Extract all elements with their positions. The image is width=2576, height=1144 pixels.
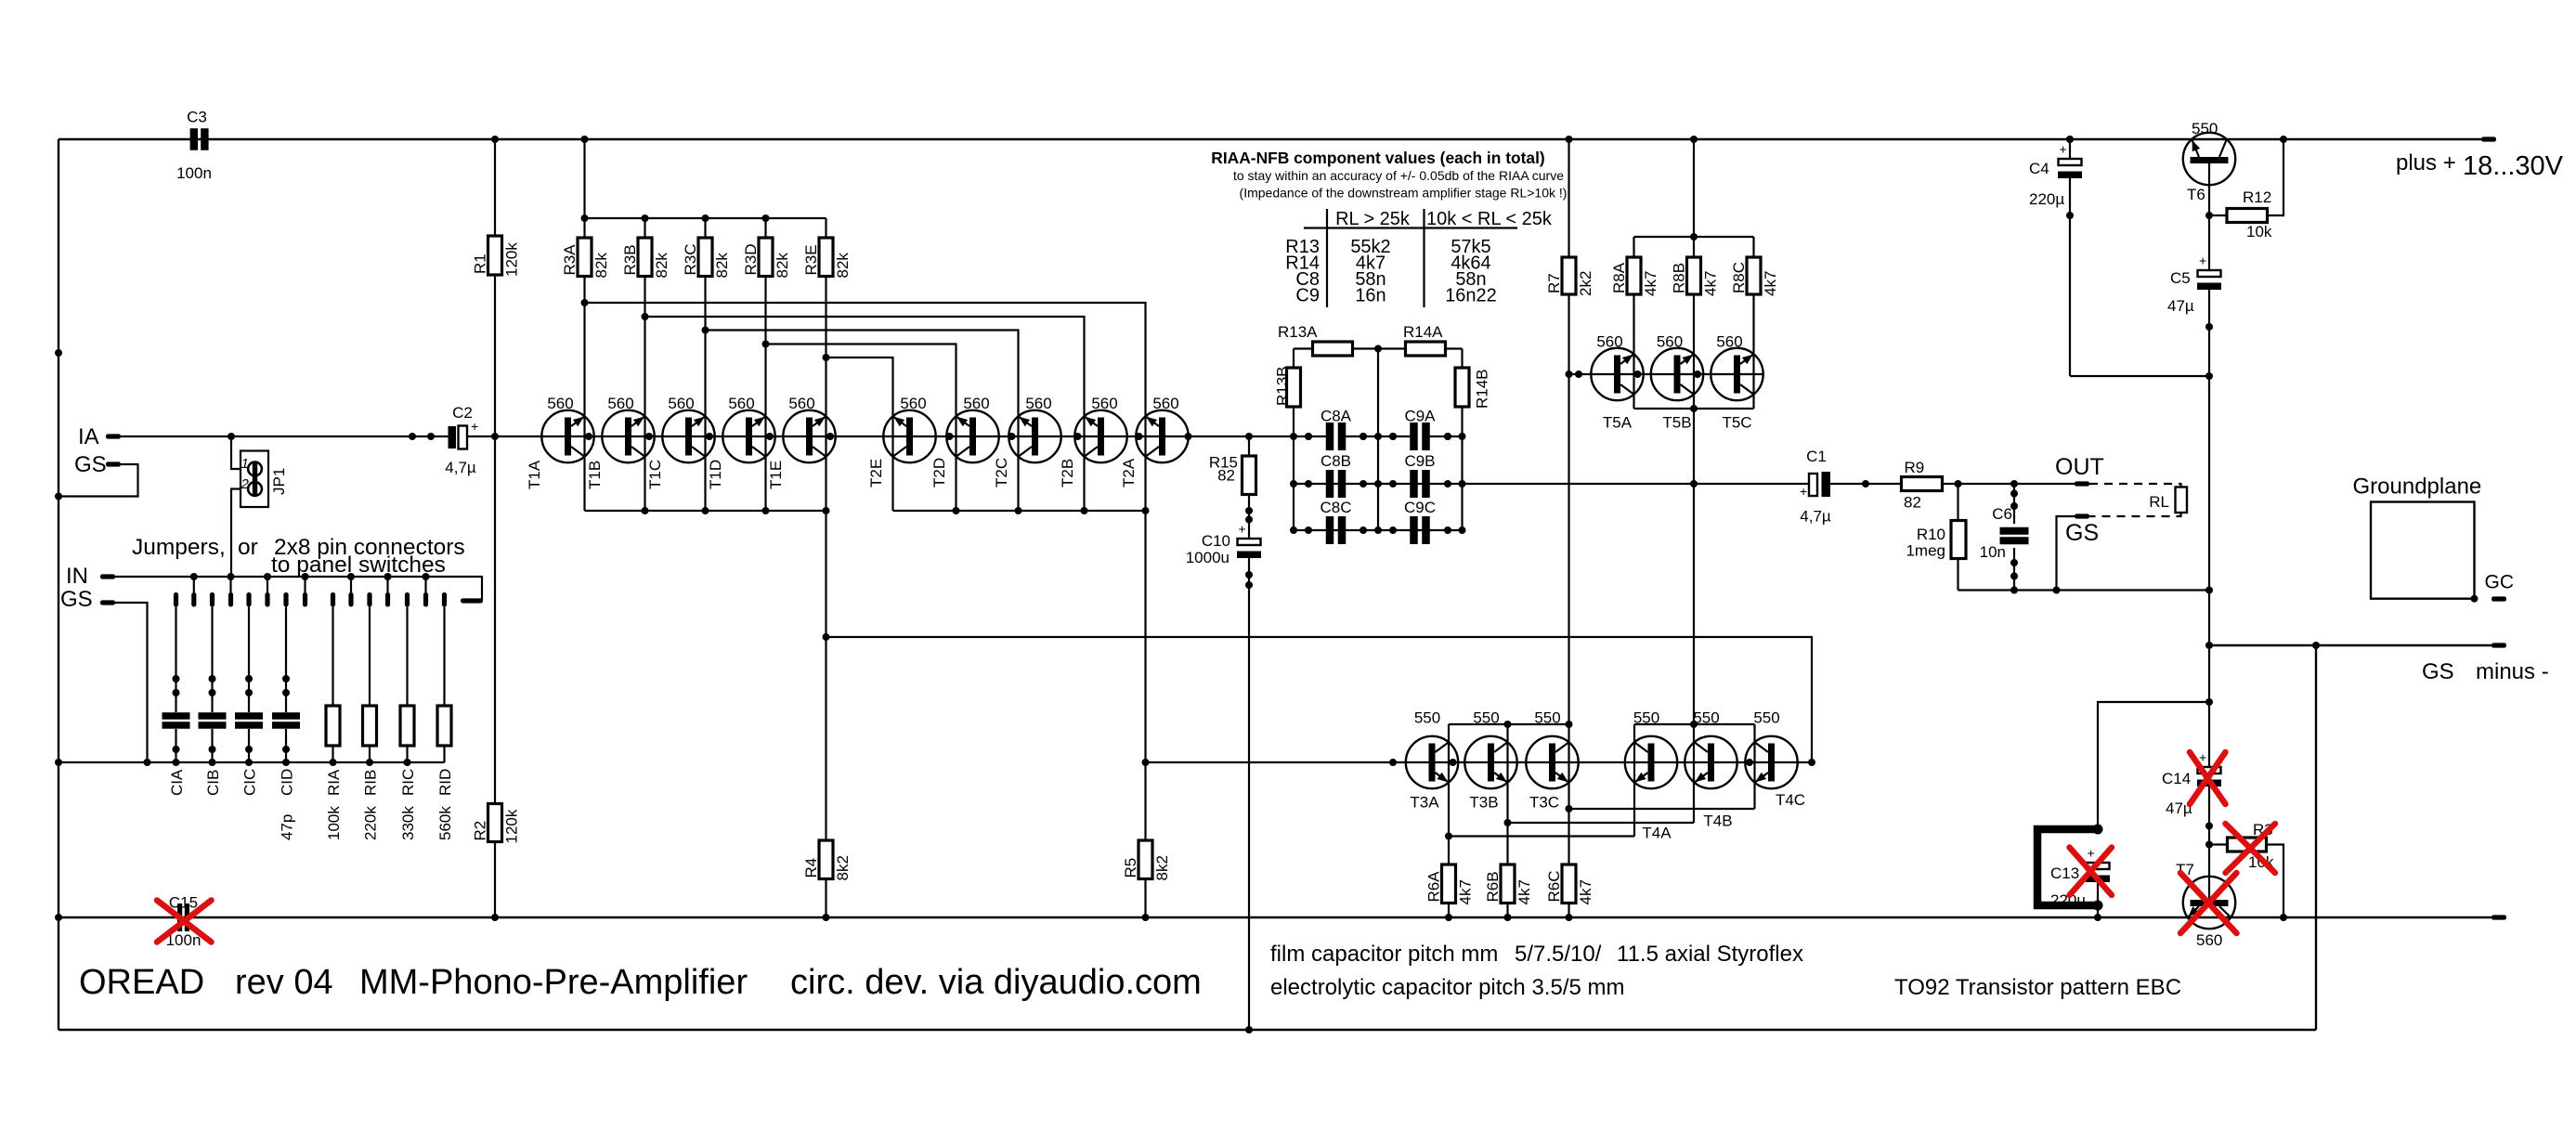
wire crossover R3B to T2 xyxy=(645,317,1085,511)
svg-text:T2C: T2C xyxy=(993,458,1010,487)
wire R4 net to T3 base riser xyxy=(826,637,1813,762)
wire R12 to plus rail xyxy=(2268,139,2284,215)
wire left border xyxy=(58,139,59,1030)
wire C2 to T1A xyxy=(467,435,541,437)
svg-text:220µ: 220µ xyxy=(2029,190,2064,208)
wire T3A collector xyxy=(1448,724,1450,837)
svg-text:T5A: T5A xyxy=(1603,414,1633,432)
transistor T5B xyxy=(1651,348,1703,400)
svg-text:4k7: 4k7 xyxy=(1516,879,1533,904)
svg-text:C13: C13 xyxy=(2050,864,2079,882)
svg-text:2: 2 xyxy=(241,476,250,492)
wire RIAA row B xyxy=(1294,483,1463,485)
transistor T5A xyxy=(1591,348,1643,400)
wire R3 to minus bus xyxy=(2267,845,2284,918)
svg-text:T4C: T4C xyxy=(1776,791,1805,809)
svg-text:R3C: R3C xyxy=(682,243,699,275)
resistor R12 xyxy=(2209,214,2227,216)
wire C5 down xyxy=(2208,290,2210,645)
capacitor C9B xyxy=(1410,470,1418,498)
svg-text:+: + xyxy=(2088,846,2095,861)
svg-text:220k: 220k xyxy=(362,806,380,840)
wire OUT row xyxy=(1463,483,1810,485)
svg-text:560: 560 xyxy=(1657,333,1683,351)
svg-text:RL > 25k: RL > 25k xyxy=(1335,209,1411,229)
node dot R7 T5 base xyxy=(1566,370,1573,378)
svg-text:R9: R9 xyxy=(1905,459,1925,476)
resistor R15 xyxy=(1245,433,1253,440)
pins 2x8 connector xyxy=(174,592,178,607)
svg-text:C3: C3 xyxy=(187,109,207,126)
svg-text:GC: GC xyxy=(2485,572,2515,593)
svg-text:82k: 82k xyxy=(653,253,670,279)
wire T4A column xyxy=(1633,724,1635,837)
svg-text:8k2: 8k2 xyxy=(1153,855,1171,880)
wire GS output drop xyxy=(2057,516,2075,591)
wire crossover R3D to T2 xyxy=(766,344,956,512)
transistor T3C xyxy=(1526,736,1578,788)
svg-text:4k7: 4k7 xyxy=(1702,271,1720,296)
svg-text:RIC: RIC xyxy=(399,769,417,796)
svg-text:electrolytic capacitor pitch 3: electrolytic capacitor pitch 3.5/5 mm xyxy=(1270,975,1624,1000)
svg-text:T4B: T4B xyxy=(1703,812,1732,830)
svg-text:T3C: T3C xyxy=(1529,794,1559,812)
svg-text:CIC: CIC xyxy=(241,769,259,796)
wire R3C to T1/T2 column xyxy=(704,277,706,512)
capacitor C15 (deleted) xyxy=(177,903,182,931)
svg-text:R13B: R13B xyxy=(1274,366,1292,406)
svg-text:550: 550 xyxy=(1753,709,1779,727)
red cross over R3 xyxy=(2226,824,2276,873)
svg-text:C8A: C8A xyxy=(1321,408,1352,425)
node dot C13 branch xyxy=(2205,698,2213,706)
svg-text:560: 560 xyxy=(607,395,633,412)
capacitor C13 (bridged, deleted) xyxy=(2037,829,2098,905)
svg-text:T1C: T1C xyxy=(646,460,664,489)
svg-text:circ. dev. via diyaudio.com: circ. dev. via diyaudio.com xyxy=(790,963,1202,1002)
node dot R13A R14A xyxy=(1374,345,1382,353)
transistor T6 xyxy=(2183,133,2235,185)
wire R3D to T1/T2 column xyxy=(764,277,766,512)
svg-text:MM-Phono-Pre-Amplifier: MM-Phono-Pre-Amplifier xyxy=(359,963,748,1002)
terminal GC xyxy=(2491,596,2506,601)
wire C10 to bottom border xyxy=(1248,558,1250,1030)
transistor T2D xyxy=(946,410,998,462)
svg-text:Jumpers,: Jumpers, xyxy=(132,535,226,560)
wire RIAA left rail R13B xyxy=(1293,349,1295,369)
svg-text:R6A: R6A xyxy=(1425,871,1443,903)
transistor T2B xyxy=(1074,410,1126,462)
svg-text:82: 82 xyxy=(1217,467,1235,485)
svg-text:C1: C1 xyxy=(1806,448,1827,465)
table RIAA values xyxy=(1326,209,1328,307)
wire minus rail xyxy=(2208,644,2491,646)
svg-text:560: 560 xyxy=(1152,395,1178,412)
svg-text:OREAD: OREAD xyxy=(79,963,204,1002)
wire RIAA row A segments xyxy=(1249,435,1327,437)
node dots IN wire xyxy=(190,573,198,580)
svg-text:+: + xyxy=(2199,253,2206,268)
node dot T4 collector riser on OUT row xyxy=(1690,480,1698,487)
terminal plus xyxy=(2481,136,2496,141)
svg-text:GS: GS xyxy=(2422,659,2454,684)
resistor R13B xyxy=(1287,368,1301,407)
resistor RIC xyxy=(406,607,408,707)
svg-text:TO92 Transistor pattern EBC: TO92 Transistor pattern EBC xyxy=(1894,975,2181,1000)
wire R3A to T1/T2 column xyxy=(583,277,585,512)
svg-text:T5C: T5C xyxy=(1722,414,1751,432)
resistor R6B xyxy=(1506,823,1508,864)
wire JP1 pin2 to IN xyxy=(231,489,241,578)
wire T6 base down xyxy=(2208,162,2210,270)
svg-text:RID: RID xyxy=(436,769,454,796)
wire T3A-T4A emitters xyxy=(1449,835,1634,837)
jumper JP1 xyxy=(241,451,268,508)
svg-text:rev 04: rev 04 xyxy=(235,963,333,1002)
svg-text:100k: 100k xyxy=(325,806,343,840)
svg-text:4,7µ: 4,7µ xyxy=(445,459,476,476)
svg-text:10n: 10n xyxy=(1980,543,2006,561)
wire minus bus xyxy=(59,916,2491,918)
wire T2 emitter bus xyxy=(893,510,1146,512)
wire T3C-T4C emitters xyxy=(1569,808,1755,810)
node dots on minus bus xyxy=(55,914,62,921)
wire R3 top bus xyxy=(585,217,826,219)
svg-text:T3A: T3A xyxy=(1410,794,1439,812)
svg-text:16n: 16n xyxy=(1355,286,1386,306)
node dot T3A base xyxy=(1450,759,1457,766)
wire C4 down to C5 node xyxy=(2069,178,2071,376)
svg-text:560k: 560k xyxy=(436,806,454,840)
wire R3 bus riser xyxy=(583,139,585,218)
wire T2 bus to R5 xyxy=(1144,511,1146,840)
svg-text:RIB: RIB xyxy=(362,770,380,796)
resistor R8A xyxy=(1633,237,1634,257)
resistor RIA xyxy=(332,607,333,707)
node dot R4 tap xyxy=(823,633,830,641)
svg-text:T1B: T1B xyxy=(586,461,604,489)
svg-text:120k: 120k xyxy=(503,242,521,277)
svg-text:R8C: R8C xyxy=(1730,262,1748,293)
svg-text:R6B: R6B xyxy=(1484,871,1502,902)
svg-text:or: or xyxy=(238,535,258,560)
node dot GS lower bus xyxy=(144,759,151,766)
wire R3B to T1/T2 column xyxy=(644,277,645,512)
svg-text:18...30V: 18...30V xyxy=(2463,151,2564,181)
resistor R6A xyxy=(1448,837,1450,865)
transistor T2C xyxy=(1008,410,1060,462)
resistor R3E xyxy=(825,218,826,238)
wire IA input xyxy=(121,435,449,437)
wire right border xyxy=(2315,645,2317,1030)
svg-text:R5: R5 xyxy=(1122,858,1139,878)
svg-text:550: 550 xyxy=(1414,709,1440,727)
wire T1 bus to R4 xyxy=(825,511,826,840)
wire R7 column down xyxy=(1568,294,1569,724)
transistor T1A xyxy=(541,410,593,462)
svg-text:C2: C2 xyxy=(452,404,473,422)
svg-text:R14B: R14B xyxy=(1474,369,1491,409)
svg-text:560: 560 xyxy=(1025,395,1051,412)
svg-text:4,7µ: 4,7µ xyxy=(1800,508,1831,526)
svg-text:T2D: T2D xyxy=(930,458,948,487)
resistor R13A xyxy=(1294,347,1313,349)
svg-text:120k: 120k xyxy=(503,809,521,843)
svg-text:10k < RL < 25k: 10k < RL < 25k xyxy=(1426,209,1553,229)
svg-text:R6C: R6C xyxy=(1545,870,1563,902)
svg-text:GS: GS xyxy=(74,452,107,477)
resistor R2 xyxy=(494,436,496,917)
svg-text:R8A: R8A xyxy=(1610,262,1628,293)
svg-text:C5: C5 xyxy=(2170,269,2191,287)
capacitor CIC xyxy=(248,607,250,713)
svg-text:(Impedance of the downstream a: (Impedance of the downstream amplifier s… xyxy=(1240,186,1568,201)
resistor R14A xyxy=(1406,342,1446,356)
capacitor C14 (deleted) xyxy=(2198,767,2221,773)
wire T4C column xyxy=(1753,724,1755,809)
wire T1 emitter bus xyxy=(585,510,826,512)
svg-text:560: 560 xyxy=(1716,333,1742,351)
svg-text:560: 560 xyxy=(2196,931,2222,949)
svg-text:T2A: T2A xyxy=(1120,458,1138,487)
resistor R3 (deleted) xyxy=(2209,843,2228,845)
svg-text:560: 560 xyxy=(668,395,694,412)
wire T3 T4 base chain xyxy=(1146,761,1813,763)
load RL dashed return xyxy=(2089,513,2181,516)
svg-text:4k7: 4k7 xyxy=(1577,879,1594,904)
svg-text:330k: 330k xyxy=(399,806,417,840)
wire output ground return xyxy=(1958,589,2210,591)
wire GS upper to border xyxy=(59,464,138,497)
svg-text:R7: R7 xyxy=(1545,273,1563,293)
svg-text:R13A: R13A xyxy=(1278,323,1318,341)
wire RIAA center rail xyxy=(1377,349,1379,531)
wire bottom border xyxy=(59,1029,2316,1031)
wire R3E to T1/T2 column xyxy=(825,277,826,512)
wire crossover R3A to T2 xyxy=(585,303,1146,511)
svg-text:16n22: 16n22 xyxy=(1445,286,1497,306)
wire C13 branch xyxy=(2098,702,2209,829)
transistor T3A xyxy=(1406,736,1458,788)
svg-text:4k7: 4k7 xyxy=(1642,271,1659,296)
capacitor CID xyxy=(285,607,287,713)
capacitor CIA xyxy=(175,607,176,713)
resistor R3A xyxy=(581,214,589,222)
svg-text:to panel switches: to panel switches xyxy=(271,552,446,578)
transistor T7 (deleted) xyxy=(2183,877,2235,929)
resistor R3C xyxy=(702,214,709,222)
capacitor C8B xyxy=(1326,470,1334,498)
svg-text:82k: 82k xyxy=(592,253,610,279)
wire T3B collector xyxy=(1506,724,1508,823)
terminal GS upper xyxy=(106,461,121,466)
svg-text:film capacitor pitch mm: film capacitor pitch mm xyxy=(1270,942,1498,967)
wire T5 emitters to T4 collectors riser xyxy=(1693,409,1695,724)
red cross over C15 xyxy=(157,901,212,942)
svg-text:47p: 47p xyxy=(279,814,296,840)
wire JP1 pin1 xyxy=(231,436,241,469)
wire R8C to T5 xyxy=(1752,294,1754,409)
node dot left border CI bus xyxy=(55,759,62,766)
wire R8 top bus riser xyxy=(1693,139,1695,237)
svg-text:to stay within an accuracy of: to stay within an accuracy of +/- 0.05db… xyxy=(1233,168,1564,183)
svg-text:560: 560 xyxy=(1091,395,1117,412)
svg-text:82k: 82k xyxy=(713,253,731,279)
wire CI bus xyxy=(59,761,445,763)
wire GS lower to bus xyxy=(115,603,148,762)
svg-text:82k: 82k xyxy=(774,253,791,279)
svg-text:C9A: C9A xyxy=(1404,408,1436,425)
svg-text:2k2: 2k2 xyxy=(1577,271,1594,296)
resistor R8B xyxy=(1693,237,1695,257)
svg-text:R3E: R3E xyxy=(802,244,820,275)
svg-text:4k7: 4k7 xyxy=(1762,271,1779,296)
red cross over C14 xyxy=(2190,752,2226,804)
svg-text:R8B: R8B xyxy=(1671,263,1688,293)
resistor R7 xyxy=(1568,139,1569,257)
wire C5 node to C14 xyxy=(2208,645,2210,767)
svg-text:R12: R12 xyxy=(2243,188,2271,206)
svg-text:560: 560 xyxy=(788,395,814,412)
transistor T2E xyxy=(883,410,935,462)
svg-text:10k: 10k xyxy=(2246,223,2272,240)
svg-text:C8C: C8C xyxy=(1320,499,1351,516)
capacitor C9A xyxy=(1410,422,1418,450)
svg-text:C4: C4 xyxy=(2029,160,2049,177)
svg-text:CID: CID xyxy=(279,769,296,796)
svg-text:GS: GS xyxy=(60,587,93,612)
capacitor C2 xyxy=(409,433,416,440)
terminal minus rail GS xyxy=(2491,643,2506,647)
wire R8B to T5 xyxy=(1693,294,1695,409)
node dot minus rail border xyxy=(2312,642,2320,649)
node dot R1 main wire xyxy=(491,433,499,440)
transistor T2A xyxy=(1136,410,1188,462)
wire crossover R3C to T2 xyxy=(706,331,1019,512)
svg-text:Groundplane: Groundplane xyxy=(2353,474,2482,500)
resistor R3B xyxy=(642,214,649,222)
svg-text:1: 1 xyxy=(241,456,249,472)
wire T2 base chain xyxy=(934,435,1249,437)
transistor T1C xyxy=(662,410,714,462)
pin connector bar 16 xyxy=(461,598,483,603)
capacitor C6 xyxy=(2010,480,2018,487)
resistor R5 xyxy=(1138,840,1152,879)
svg-text:R10: R10 xyxy=(1917,526,1945,543)
resistor RL xyxy=(2176,487,2188,513)
resistor R9 xyxy=(1902,477,1943,491)
svg-text:C9: C9 xyxy=(1295,286,1320,306)
svg-text:RIAA-NFB component values (eac: RIAA-NFB component values (each in total… xyxy=(1211,149,1544,167)
node dot left border GS join xyxy=(55,493,62,500)
svg-text:C10: C10 xyxy=(1202,532,1230,550)
resistor R10 xyxy=(1955,480,1962,487)
wire R9 to OUT xyxy=(1943,483,2075,485)
node dots RIAA rows xyxy=(1305,433,1312,440)
transistor T4B xyxy=(1685,736,1737,788)
svg-text:T5B: T5B xyxy=(1662,414,1691,432)
wire T1 base chain xyxy=(541,435,934,437)
svg-text:560: 560 xyxy=(1596,333,1622,351)
svg-text:IN: IN xyxy=(66,564,88,589)
red cross over C13 xyxy=(2070,848,2113,896)
node dots on plus rail xyxy=(491,136,499,143)
node dot groundplane corner xyxy=(2471,595,2478,603)
svg-text:T2E: T2E xyxy=(867,459,885,487)
svg-text:8k2: 8k2 xyxy=(834,855,852,880)
svg-text:T1D: T1D xyxy=(707,460,724,489)
svg-text:JP1: JP1 xyxy=(270,468,288,495)
resistor R1 xyxy=(494,139,496,436)
svg-text:R3B: R3B xyxy=(621,244,639,275)
svg-text:minus -: minus - xyxy=(2476,659,2549,684)
svg-text:RL: RL xyxy=(2149,493,2169,511)
resistor RIB xyxy=(369,607,371,707)
transistor T1D xyxy=(722,410,774,462)
capacitor C1 xyxy=(1809,474,1817,496)
terminal GS lower xyxy=(100,600,115,604)
svg-text:T6: T6 xyxy=(2187,186,2205,203)
svg-text:C8B: C8B xyxy=(1321,452,1351,470)
resistor R4 xyxy=(819,840,833,879)
capacitor C5 xyxy=(2198,270,2221,277)
svg-text:C9C: C9C xyxy=(1404,499,1436,516)
capacitor C9C xyxy=(1410,516,1418,544)
terminal IA xyxy=(106,434,121,438)
transistor T1E xyxy=(783,410,835,462)
svg-text:CIA: CIA xyxy=(168,769,186,796)
wire RIAA right rail R14B xyxy=(1461,349,1463,369)
transistor T4A xyxy=(1625,736,1677,788)
svg-text:plus +: plus + xyxy=(2396,150,2456,175)
terminal OUT xyxy=(2075,481,2089,486)
svg-text:11.5 axial Styroflex: 11.5 axial Styroflex xyxy=(1617,942,1803,967)
svg-text:5/7.5/10/: 5/7.5/10/ xyxy=(1515,942,1602,967)
wire R8A to T5 xyxy=(1633,294,1634,409)
capacitor C3 xyxy=(190,128,198,150)
svg-text:T4A: T4A xyxy=(1642,825,1672,842)
svg-text:R1: R1 xyxy=(472,253,489,274)
transistor T1B xyxy=(602,410,654,462)
wire T3 collector bus xyxy=(1449,723,1569,725)
svg-text:47µ: 47µ xyxy=(2167,297,2194,315)
svg-text:+: + xyxy=(1800,484,1807,499)
svg-text:C14: C14 xyxy=(2162,770,2191,787)
wire T4 collector bus xyxy=(1634,723,1755,725)
svg-text:CIB: CIB xyxy=(204,770,222,796)
node dot C10 bottom border xyxy=(1245,1026,1253,1033)
transistor T4C xyxy=(1745,736,1797,788)
transistor T3B xyxy=(1464,736,1516,788)
svg-text:560: 560 xyxy=(728,395,754,412)
terminal IN xyxy=(100,574,115,578)
resistor R6C xyxy=(1568,809,1569,864)
wire T5 emitter bus xyxy=(1634,408,1754,409)
wire plus rail V+ xyxy=(59,138,2481,140)
node dot R5 tap xyxy=(1142,759,1150,766)
wire T4B column xyxy=(1693,724,1695,823)
svg-text:R3D: R3D xyxy=(742,243,760,275)
svg-text:T3B: T3B xyxy=(1469,794,1498,812)
svg-text:R3A: R3A xyxy=(561,244,579,276)
red cross over T7 xyxy=(2180,873,2237,933)
svg-text:100n: 100n xyxy=(176,164,212,182)
wire T3B-T4B emitters xyxy=(1508,822,1695,824)
wire RIAA row C xyxy=(1294,529,1463,531)
svg-text:C9B: C9B xyxy=(1404,452,1435,470)
svg-text:560: 560 xyxy=(963,395,989,412)
capacitor C8A xyxy=(1326,422,1334,450)
